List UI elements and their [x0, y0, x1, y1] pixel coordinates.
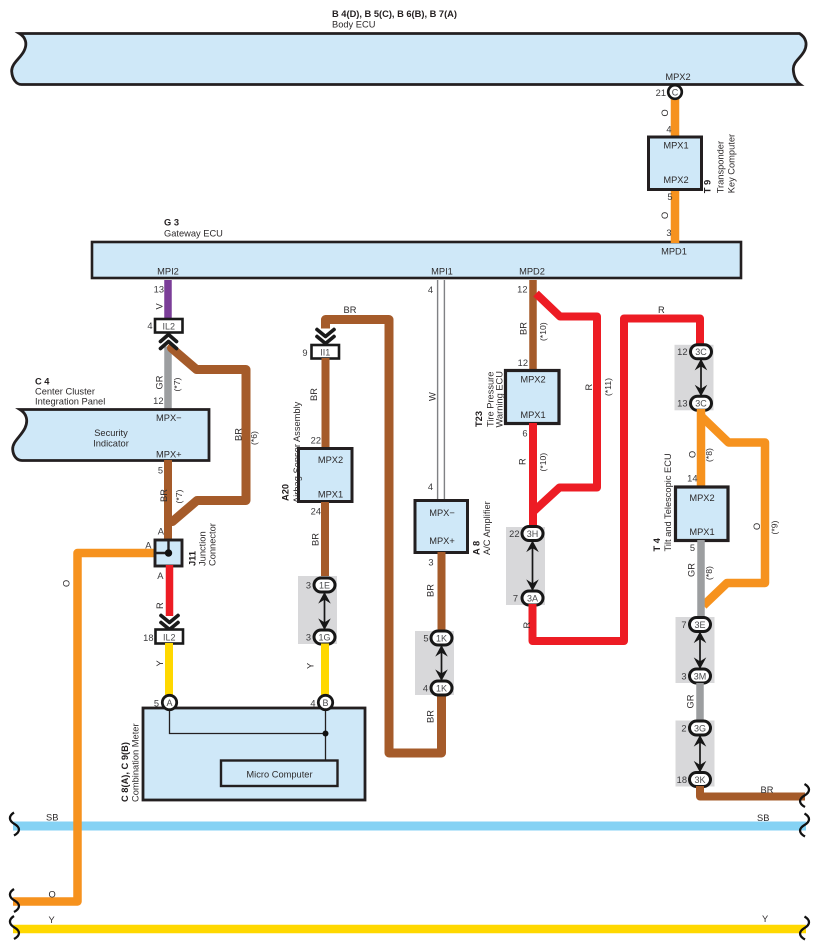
- svg-text:18: 18: [677, 775, 687, 785]
- node A pin circle 5: [154, 695, 177, 709]
- connector pair 3H/3A: [506, 527, 545, 606]
- wire O orange Body ECU pin21 to T9 pin4: [656, 88, 675, 138]
- svg-text:4: 4: [423, 684, 428, 694]
- wire R red (*11) bypass around T23: [534, 294, 613, 512]
- svg-text:Body ECU: Body ECU: [332, 20, 375, 30]
- svg-text:MPX+: MPX+: [429, 536, 455, 546]
- svg-text:Indicator: Indicator: [93, 439, 129, 449]
- svg-text:Key Computer: Key Computer: [727, 134, 737, 193]
- connector pair 3C/3C: [675, 345, 714, 411]
- svg-text:O: O: [752, 523, 762, 530]
- svg-text:5: 5: [423, 634, 428, 644]
- wire BR brown A8 pin3 to 1K: [426, 552, 442, 632]
- svg-text:Y: Y: [306, 663, 316, 669]
- center cluster integration panel C4 security indicator: [13, 377, 209, 461]
- Gateway ECU band G3: [92, 218, 741, 279]
- wire Y yellow IL2 to combination meter pin5 A: [155, 643, 169, 696]
- svg-text:R: R: [518, 458, 528, 465]
- svg-text:Connector: Connector: [208, 523, 218, 566]
- svg-text:O: O: [688, 451, 698, 458]
- svg-text:GR: GR: [155, 375, 165, 389]
- svg-text:(*8): (*8): [704, 566, 714, 580]
- svg-text:R: R: [584, 384, 594, 391]
- svg-text:BR: BR: [159, 489, 169, 502]
- svg-text:MPD2: MPD2: [519, 267, 545, 277]
- svg-text:W: W: [428, 392, 438, 401]
- svg-text:MPX1: MPX1: [663, 141, 688, 151]
- svg-text:1G: 1G: [318, 632, 330, 642]
- svg-text:Tilt and Telescopic ECU: Tilt and Telescopic ECU: [663, 453, 673, 551]
- svg-text:3: 3: [428, 558, 433, 568]
- svg-text:(*11): (*11): [603, 378, 613, 396]
- svg-text:Airbag Sensor Assembly: Airbag Sensor Assembly: [292, 401, 302, 503]
- svg-text:MPX2: MPX2: [520, 375, 545, 385]
- node B pin circle 4: [310, 695, 332, 709]
- svg-text:5: 5: [154, 699, 159, 709]
- wire GR gray 3M to 3G: [686, 683, 701, 721]
- svg-text:V: V: [155, 303, 165, 310]
- svg-text:SB: SB: [46, 813, 58, 823]
- svg-text:1K: 1K: [436, 633, 447, 643]
- connector IL2 pin4: [155, 319, 183, 333]
- svg-text:3K: 3K: [694, 775, 705, 785]
- svg-text:O: O: [660, 109, 670, 116]
- svg-text:T 4: T 4: [652, 537, 662, 551]
- svg-text:BR: BR: [234, 428, 244, 441]
- wire O orange J11 left down to bottom exit: [10, 541, 154, 913]
- svg-text:C 8(A), C 9(B): C 8(A), C 9(B): [120, 742, 130, 802]
- svg-text:T 9: T 9: [703, 180, 713, 193]
- svg-text:MPI2: MPI2: [157, 267, 179, 277]
- svg-text:Integration Panel: Integration Panel: [35, 397, 105, 407]
- svg-text:MPD1: MPD1: [661, 247, 687, 257]
- svg-text:12: 12: [677, 347, 687, 357]
- chevron down at IL2 pin18: [161, 616, 178, 630]
- connector pair 1E/1G: [298, 576, 337, 644]
- connector II1 pin9: [302, 345, 339, 359]
- wire R red J11 to IL2 pin18: [155, 565, 170, 616]
- svg-text:BR: BR: [309, 388, 319, 401]
- svg-text:5: 5: [690, 543, 695, 553]
- wire GR gray (*8) T4 pin5 to 3E: [687, 540, 715, 619]
- svg-text:SB: SB: [757, 813, 769, 823]
- svg-text:Y: Y: [762, 914, 768, 924]
- svg-text:MPX2: MPX2: [318, 455, 343, 465]
- svg-text:24: 24: [311, 507, 321, 517]
- svg-text:MPX1: MPX1: [318, 490, 343, 500]
- svg-text:BR: BR: [344, 305, 357, 315]
- svg-text:MPX2: MPX2: [663, 175, 688, 185]
- svg-text:(*6): (*6): [249, 431, 259, 445]
- svg-text:14: 14: [687, 474, 697, 484]
- svg-text:Center Cluster: Center Cluster: [35, 387, 95, 397]
- svg-text:2: 2: [681, 724, 686, 734]
- svg-text:B: B: [322, 698, 328, 708]
- svg-text:A: A: [166, 698, 172, 708]
- svg-text:Combination Meter: Combination Meter: [131, 723, 141, 802]
- svg-text:4: 4: [428, 285, 433, 295]
- node C pin circle 21: [668, 85, 682, 99]
- svg-text:3M: 3M: [694, 671, 707, 681]
- svg-text:MPX2: MPX2: [665, 72, 690, 82]
- svg-text:R: R: [658, 305, 665, 315]
- svg-text:Y: Y: [49, 915, 55, 925]
- svg-text:A: A: [158, 527, 165, 537]
- svg-text:J11: J11: [188, 551, 198, 566]
- wire BR brown II1 to A20 pin22: [309, 358, 326, 449]
- svg-text:13: 13: [677, 399, 687, 409]
- svg-text:3: 3: [666, 228, 671, 238]
- svg-text:A20: A20: [281, 484, 291, 501]
- wire BR brown horizontal from II1 top right then long vertical down to 1K chain: [326, 305, 442, 753]
- svg-text:(*8): (*8): [704, 448, 714, 462]
- svg-text:3A: 3A: [527, 593, 538, 603]
- connector pair 1K/1K: [415, 631, 454, 695]
- Body ECU band B4(D),B5(C),B6(B),B7(A): [12, 9, 806, 85]
- svg-text:5: 5: [158, 466, 163, 476]
- wire O orange 3C pin13 to T4 pin14: [687, 409, 714, 488]
- svg-text:(*10): (*10): [538, 453, 548, 472]
- svg-text:GR: GR: [687, 563, 697, 577]
- svg-text:MPI1: MPI1: [431, 267, 453, 277]
- svg-text:(*9): (*9): [770, 521, 780, 535]
- svg-text:BR: BR: [519, 322, 529, 335]
- connector pair 3E/3M: [676, 617, 715, 683]
- svg-text:MPX+: MPX+: [156, 450, 182, 460]
- svg-text:22: 22: [509, 529, 519, 539]
- svg-text:(*7): (*7): [172, 378, 182, 392]
- wire Y band bottom: [10, 914, 809, 940]
- svg-text:1K: 1K: [436, 683, 447, 693]
- svg-text:6: 6: [522, 429, 527, 439]
- wire Y yellow 1G to combination meter pin4 B: [306, 644, 326, 697]
- svg-text:1E: 1E: [319, 580, 330, 590]
- svg-text:MPX2: MPX2: [689, 493, 714, 503]
- wire GR gray (*7) IL2 to C4 pin12: [153, 347, 182, 411]
- svg-text:Security: Security: [94, 428, 128, 438]
- svg-text:GR: GR: [686, 694, 696, 708]
- wire BR brown (*6) bypass IL2 to J11: [172, 348, 260, 522]
- svg-text:Micro Computer: Micro Computer: [246, 770, 312, 780]
- svg-text:4: 4: [428, 482, 433, 492]
- svg-text:4: 4: [310, 699, 315, 709]
- wire SB band bottom: [10, 813, 809, 837]
- svg-text:3: 3: [306, 633, 311, 643]
- svg-text:3C: 3C: [695, 347, 707, 357]
- wire BR label below 1K: [426, 710, 436, 723]
- svg-text:O: O: [660, 212, 670, 219]
- svg-text:3: 3: [306, 581, 311, 591]
- svg-text:12: 12: [153, 396, 163, 406]
- wire V violet Gateway MPI2 pin13 to IL2: [147, 280, 168, 331]
- wire O orange (*9) bypass around T4: [701, 416, 780, 606]
- svg-text:BR: BR: [426, 710, 436, 723]
- svg-text:3: 3: [681, 672, 686, 682]
- wire BR brown (*10) Gateway MPD2 pin12 to T23 pin12: [517, 280, 548, 372]
- tilt and telescopic ECU T4: [652, 453, 728, 551]
- svg-text:3C: 3C: [695, 399, 707, 409]
- svg-text:13: 13: [154, 285, 164, 295]
- svg-text:(*10): (*10): [538, 322, 548, 341]
- svg-text:12: 12: [517, 285, 527, 295]
- svg-text:IL2: IL2: [163, 322, 176, 332]
- wire O orange T9 pin3 to Gateway MPD1: [660, 189, 675, 243]
- tire pressure warning ECU T23: [474, 371, 559, 428]
- svg-text:R: R: [522, 622, 532, 629]
- svg-text:A 8: A 8: [472, 541, 482, 555]
- transponder key computer T9: [649, 134, 737, 193]
- wire W white Gateway MPI1 pin4 to A8: [428, 280, 445, 500]
- svg-text:IL2: IL2: [163, 633, 176, 643]
- svg-text:MPX−: MPX−: [429, 508, 455, 518]
- wire R red 3A down right loop up over to 3C pin12: [522, 305, 700, 641]
- svg-text:5: 5: [667, 192, 672, 202]
- svg-text:BR: BR: [761, 785, 774, 795]
- svg-text:3E: 3E: [694, 620, 705, 630]
- svg-text:12: 12: [518, 358, 528, 368]
- svg-text:MPX1: MPX1: [520, 410, 545, 420]
- svg-text:A: A: [145, 541, 152, 551]
- svg-text:MPX1: MPX1: [689, 527, 714, 537]
- wire BR brown 3K to right edge exit: [700, 784, 809, 807]
- svg-text:C: C: [672, 88, 679, 98]
- svg-text:O: O: [49, 890, 56, 900]
- svg-text:9: 9: [302, 348, 307, 358]
- svg-text:3G: 3G: [694, 723, 706, 733]
- chevron up at IL2 pin4: [161, 335, 177, 349]
- a/c amplifier A8: [415, 501, 492, 556]
- svg-text:22: 22: [311, 436, 321, 446]
- svg-text:C 4: C 4: [35, 377, 50, 387]
- svg-text:3H: 3H: [527, 529, 539, 539]
- svg-text:II1: II1: [320, 348, 330, 358]
- svg-text:R: R: [155, 602, 165, 609]
- svg-text:BR: BR: [311, 533, 321, 546]
- svg-text:O: O: [62, 580, 72, 587]
- svg-text:Transponder: Transponder: [716, 141, 726, 193]
- svg-text:Warning ECU: Warning ECU: [495, 371, 505, 428]
- svg-text:T23: T23: [474, 411, 484, 427]
- svg-text:A/C Amplifier: A/C Amplifier: [482, 501, 492, 555]
- svg-text:7: 7: [681, 620, 686, 630]
- combination meter C8(A) C9(B): [120, 708, 365, 802]
- wire BR brown A20 pin24 to 1E: [311, 502, 326, 578]
- svg-text:4: 4: [147, 321, 152, 331]
- svg-text:18: 18: [143, 633, 153, 643]
- svg-text:Y: Y: [155, 660, 165, 666]
- connector pair 3G/3K: [676, 721, 715, 787]
- svg-text:B 4(D), B 5(C), B 6(B), B 7(A): B 4(D), B 5(C), B 6(B), B 7(A): [332, 9, 457, 19]
- svg-text:21: 21: [656, 88, 666, 98]
- svg-text:BR: BR: [426, 584, 436, 597]
- svg-text:7: 7: [513, 594, 518, 604]
- wire R red (*10) T23 pin6 to 3H: [518, 423, 549, 528]
- svg-text:4: 4: [666, 125, 671, 135]
- connector IL2 pin18: [143, 630, 183, 644]
- junction connector J11: [155, 523, 218, 566]
- airbag sensor assembly A20: [281, 401, 353, 503]
- chevron down at II1 pin9: [317, 330, 334, 344]
- svg-text:G 3: G 3: [164, 218, 179, 228]
- svg-text:Junction: Junction: [198, 531, 208, 566]
- svg-text:Gateway ECU: Gateway ECU: [164, 229, 223, 239]
- svg-text:(*7): (*7): [174, 490, 184, 504]
- svg-text:MPX−: MPX−: [156, 413, 182, 423]
- svg-text:A: A: [157, 571, 164, 581]
- wire BR brown (*7) C4 pin5 to J11: [158, 460, 184, 541]
